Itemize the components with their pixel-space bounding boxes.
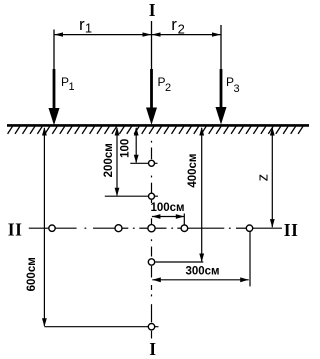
svg-text:100: 100 xyxy=(120,139,132,158)
load P2 force line (axis I) xyxy=(146,21,157,125)
node on II line at 100cm right xyxy=(181,225,188,232)
svg-text:I: I xyxy=(149,339,156,359)
ground surface line xyxy=(7,124,309,127)
svg-text:II: II xyxy=(8,220,23,240)
load P1 force line xyxy=(49,30,60,126)
node on axis at 200 depth xyxy=(149,193,155,199)
svg-text:2: 2 xyxy=(165,82,171,94)
node on axis at 100 depth xyxy=(149,160,155,166)
load P3 force line xyxy=(216,25,227,125)
svg-text:400см: 400см xyxy=(187,154,199,188)
svg-text:100см: 100см xyxy=(150,202,184,214)
ground hatching xyxy=(8,126,303,134)
extension line right of 300cm xyxy=(249,232,251,287)
svg-text:1: 1 xyxy=(85,21,92,36)
label P1 xyxy=(61,75,75,93)
svg-text:200см: 200см xyxy=(103,143,115,177)
svg-text:3: 3 xyxy=(234,83,240,95)
svg-text:II: II xyxy=(284,220,299,240)
dimension 600cm vertical xyxy=(42,127,159,327)
node on II line x=118.5 xyxy=(115,225,122,232)
section line II-II dash-dot (y=228.2) xyxy=(29,227,282,229)
dimension 400cm vertical xyxy=(155,127,204,262)
label r1 xyxy=(79,15,92,36)
node on axis at 400 depth xyxy=(148,259,154,265)
svg-text:z: z xyxy=(254,174,271,182)
dimension z vertical xyxy=(270,127,275,228)
label r2 xyxy=(171,15,185,36)
dimension 300cm horizontal xyxy=(152,277,248,282)
svg-text:600см: 600см xyxy=(26,257,38,291)
svg-text:I: I xyxy=(149,0,156,20)
node on axis at 600 depth xyxy=(148,324,154,330)
dimension line r1 r2 xyxy=(54,32,221,36)
node at axis crossing xyxy=(148,225,155,232)
label P3 xyxy=(226,75,240,95)
svg-text:1: 1 xyxy=(69,81,75,93)
label P2 xyxy=(158,75,172,94)
node on II line under P1 xyxy=(49,225,55,231)
svg-text:300см: 300см xyxy=(185,266,219,278)
dimension 200cm vertical xyxy=(105,127,158,196)
axis I-I dash-dot (x=151.5) xyxy=(151,141,153,339)
dimension 100cm horizontal xyxy=(152,214,184,225)
svg-text:r: r xyxy=(171,15,177,34)
svg-text:2: 2 xyxy=(178,21,185,36)
dimension 100 vertical xyxy=(130,127,157,163)
node on II line at 300cm right xyxy=(246,225,252,231)
